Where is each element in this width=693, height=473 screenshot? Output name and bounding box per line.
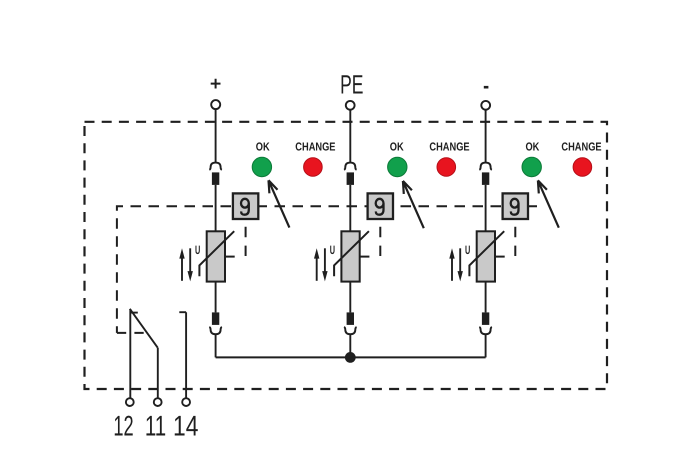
plug-in socket contact top (branch 3) (479, 163, 492, 170)
plug pin thermal fuse bottom (branch 2) (347, 312, 354, 325)
voltage down arrow (branch 3) (458, 248, 463, 281)
indicator arrow to OK LED (branch 2) (403, 181, 424, 228)
svg-text:OK: OK (390, 141, 404, 154)
thermal disconnect box (branch 3) (503, 193, 528, 219)
terminal circle - (481, 101, 490, 110)
PE bus wire (216, 356, 486, 358)
varistor body (branch 2) (341, 231, 359, 281)
voltage down arrow (branch 2) (322, 248, 327, 281)
svg-text:OK: OK (525, 141, 539, 154)
terminal circle PE (346, 101, 355, 110)
svg-text:CHANGE: CHANGE (295, 141, 335, 154)
svg-text:11: 11 (145, 411, 166, 443)
terminal label - (484, 86, 489, 89)
dashed link theta to varistor (branch 2) (379, 227, 381, 257)
contact 11 wire (157, 348, 159, 399)
wire varistor to bottom pin (branch 2) (349, 282, 351, 313)
wire pin to varistor (branch 1) (215, 185, 217, 231)
svg-text:U: U (465, 243, 470, 257)
wire minus terminal to plug socket (485, 109, 487, 162)
plug-in socket contact bottom (branch 3) (479, 327, 492, 334)
contact 12 fixed tick (130, 312, 138, 314)
varistor body (branch 3) (477, 231, 495, 281)
theta symbol (branch 3) (511, 199, 519, 215)
dashed link theta to varistor (branch 3) (514, 227, 516, 257)
plug-in socket contact bottom (branch 2) (344, 327, 357, 334)
terminal circle 12 (126, 398, 134, 406)
red CHANGE LED (branch 1) (304, 158, 323, 177)
theta symbol (branch 1) (241, 199, 249, 215)
green OK LED (branch 3) (522, 157, 541, 176)
terminal circle 11 (154, 398, 162, 406)
green OK LED (branch 1) (252, 157, 271, 176)
theta symbol (branch 2) (376, 199, 384, 215)
wire varistor to bottom pin (branch 1) (215, 282, 217, 313)
wire socket to PE bus (branch 2) (349, 334, 351, 357)
outer dashed enclosure box (85, 122, 608, 389)
voltage up arrow (branch 1) (179, 248, 184, 280)
indicator arrow to OK LED (branch 1) (269, 180, 290, 227)
plug pin thermal fuse bottom (branch 3) (482, 312, 489, 325)
varistor side tab (branch 1) (225, 256, 235, 258)
dashed link theta to varistor (branch 1) (245, 227, 247, 257)
plug pin thermal fuse bottom (branch 1) (212, 312, 219, 325)
svg-text:U: U (195, 243, 200, 257)
varistor diagonal stroke (branch 1) (199, 231, 234, 276)
terminal circle 14 (182, 398, 190, 406)
svg-text:14: 14 (173, 411, 198, 443)
wire varistor to bottom pin (branch 3) (485, 282, 487, 313)
red CHANGE LED (branch 3) (573, 158, 592, 177)
voltage down arrow (branch 1) (188, 248, 193, 281)
changeover contact: pole 12 wire (129, 309, 131, 398)
voltage up arrow (branch 2) (314, 248, 319, 280)
varistor side tab (branch 3) (495, 256, 505, 258)
svg-text:OK: OK (256, 141, 270, 154)
dashed linkage to signal contact (117, 332, 144, 334)
plug pin thermal fuse top (branch 2) (347, 172, 354, 185)
switch blade 12-11 (130, 309, 158, 348)
plug-in socket contact bottom (branch 1) (209, 327, 222, 334)
indicator arrow to OK LED (branch 3) (538, 180, 559, 227)
dashed thermal-monitoring linkage line (117, 206, 537, 333)
varistor body (branch 1) (207, 231, 225, 281)
wire PE terminal to plug socket (349, 109, 351, 162)
red CHANGE LED (branch 2) (437, 158, 456, 177)
svg-text:U: U (330, 243, 335, 257)
svg-text:12: 12 (113, 411, 133, 443)
thermal disconnect box (branch 2) (368, 193, 393, 219)
wire socket to PE bus (branch 3) (485, 334, 487, 357)
varistor diagonal stroke (branch 2) (334, 231, 369, 276)
plug-in socket contact top (branch 2) (344, 163, 357, 170)
contact 14 fixed tick (179, 311, 186, 313)
wire pin to varistor (branch 3) (485, 185, 487, 231)
contact 14 wire (185, 312, 187, 398)
svg-text:CHANGE: CHANGE (561, 141, 601, 154)
voltage up arrow (branch 3) (449, 248, 454, 280)
svg-text:PE: PE (340, 70, 363, 100)
svg-text:CHANGE: CHANGE (429, 141, 469, 154)
junction node on PE bus (345, 352, 356, 363)
green OK LED (branch 2) (388, 157, 407, 176)
terminal circle + (211, 100, 220, 109)
thermal disconnect box (branch 1) (233, 193, 258, 219)
wire pin to varistor (branch 2) (349, 185, 351, 231)
wire plus terminal to plug socket (215, 109, 217, 162)
plug-in socket contact top (branch 1) (209, 163, 222, 170)
varistor side tab (branch 2) (360, 256, 370, 258)
terminal label + (211, 79, 221, 89)
varistor diagonal stroke (branch 3) (469, 231, 504, 276)
plug pin thermal fuse top (branch 3) (482, 172, 489, 185)
wire socket to PE bus (branch 1) (215, 334, 217, 357)
plug pin thermal fuse top (branch 1) (212, 172, 219, 185)
